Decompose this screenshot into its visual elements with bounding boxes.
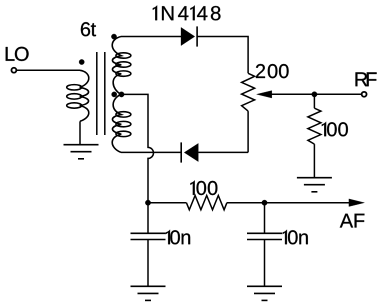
wire resistor R3 to AF junction 2	[227, 202, 265, 204]
potentiometer R1 wiper arrow	[257, 91, 272, 98]
transformer T1 primary phase dot	[79, 59, 84, 64]
transformer T1 center tap phase dot	[112, 92, 117, 97]
wire secondary bottom to diode D2	[121, 151, 181, 153]
label 100 (AF resistor)	[190, 180, 217, 195]
wire RF junction to resistor R2	[313, 94, 315, 108]
wire junction 1 to capacitor C1	[147, 203, 149, 234]
ground (C2)	[247, 286, 282, 300]
diode D2 1N4148 (cathode left, pointing left)	[180, 142, 182, 162]
wire capacitor C1 to ground	[147, 240, 149, 287]
label 10n (C1)	[166, 230, 190, 245]
wire wiper to RF terminal	[272, 93, 362, 95]
node RF junction	[312, 92, 317, 97]
potentiometer R1 200 body	[242, 73, 255, 111]
transformer T1 secondary bottom winding	[112, 94, 121, 152]
node center tap junction	[119, 92, 124, 97]
capacitor C2 10n	[247, 232, 282, 234]
label 200	[256, 64, 289, 78]
capacitor C1 10n	[131, 232, 166, 234]
resistor R2 100 body	[308, 108, 321, 144]
wire capacitor C2 to ground	[264, 240, 266, 287]
wire junction 2 to capacitor C2	[264, 203, 266, 234]
wire resistor R2 to ground	[313, 144, 315, 178]
wire diode D2 to pot bottom	[198, 151, 248, 153]
node AF junction 2	[262, 200, 267, 205]
transformer T1 secondary top phase dot	[111, 34, 116, 39]
transformer T1 core	[96, 52, 98, 135]
label 100 (RF resistor)	[322, 122, 348, 137]
resistor R3 100 body	[186, 196, 227, 210]
diode D1 1N4148 (anode left, pointing right)	[181, 27, 195, 45]
label 1N4148	[153, 5, 221, 20]
wire secondary top to diode D1	[121, 36, 181, 38]
label 6t	[81, 22, 96, 36]
AF output arrow	[349, 199, 365, 207]
label AF	[340, 214, 365, 228]
node AF junction 1	[145, 200, 150, 205]
terminal RF	[362, 92, 367, 97]
ground (primary)	[64, 145, 99, 159]
wire diode D1 to pot top	[197, 37, 248, 74]
transformer T1 primary winding	[80, 70, 89, 121]
transformer T1 secondary top winding	[112, 37, 121, 95]
terminal LO	[11, 68, 16, 73]
wire LO to transformer primary	[17, 69, 80, 71]
label 10n (C2)	[283, 230, 308, 245]
ground (C1)	[131, 286, 166, 300]
wire junction to resistor R3	[148, 202, 186, 204]
label LO	[6, 47, 29, 61]
wire to AF output	[265, 202, 350, 204]
label RF	[356, 72, 377, 86]
wire primary to ground	[79, 121, 81, 144]
ground (RF resistor)	[297, 178, 332, 192]
wire pot bottom to diode D2 line	[247, 111, 249, 152]
wire center tap to vertical bus (hops over diode wire)	[122, 94, 154, 202]
